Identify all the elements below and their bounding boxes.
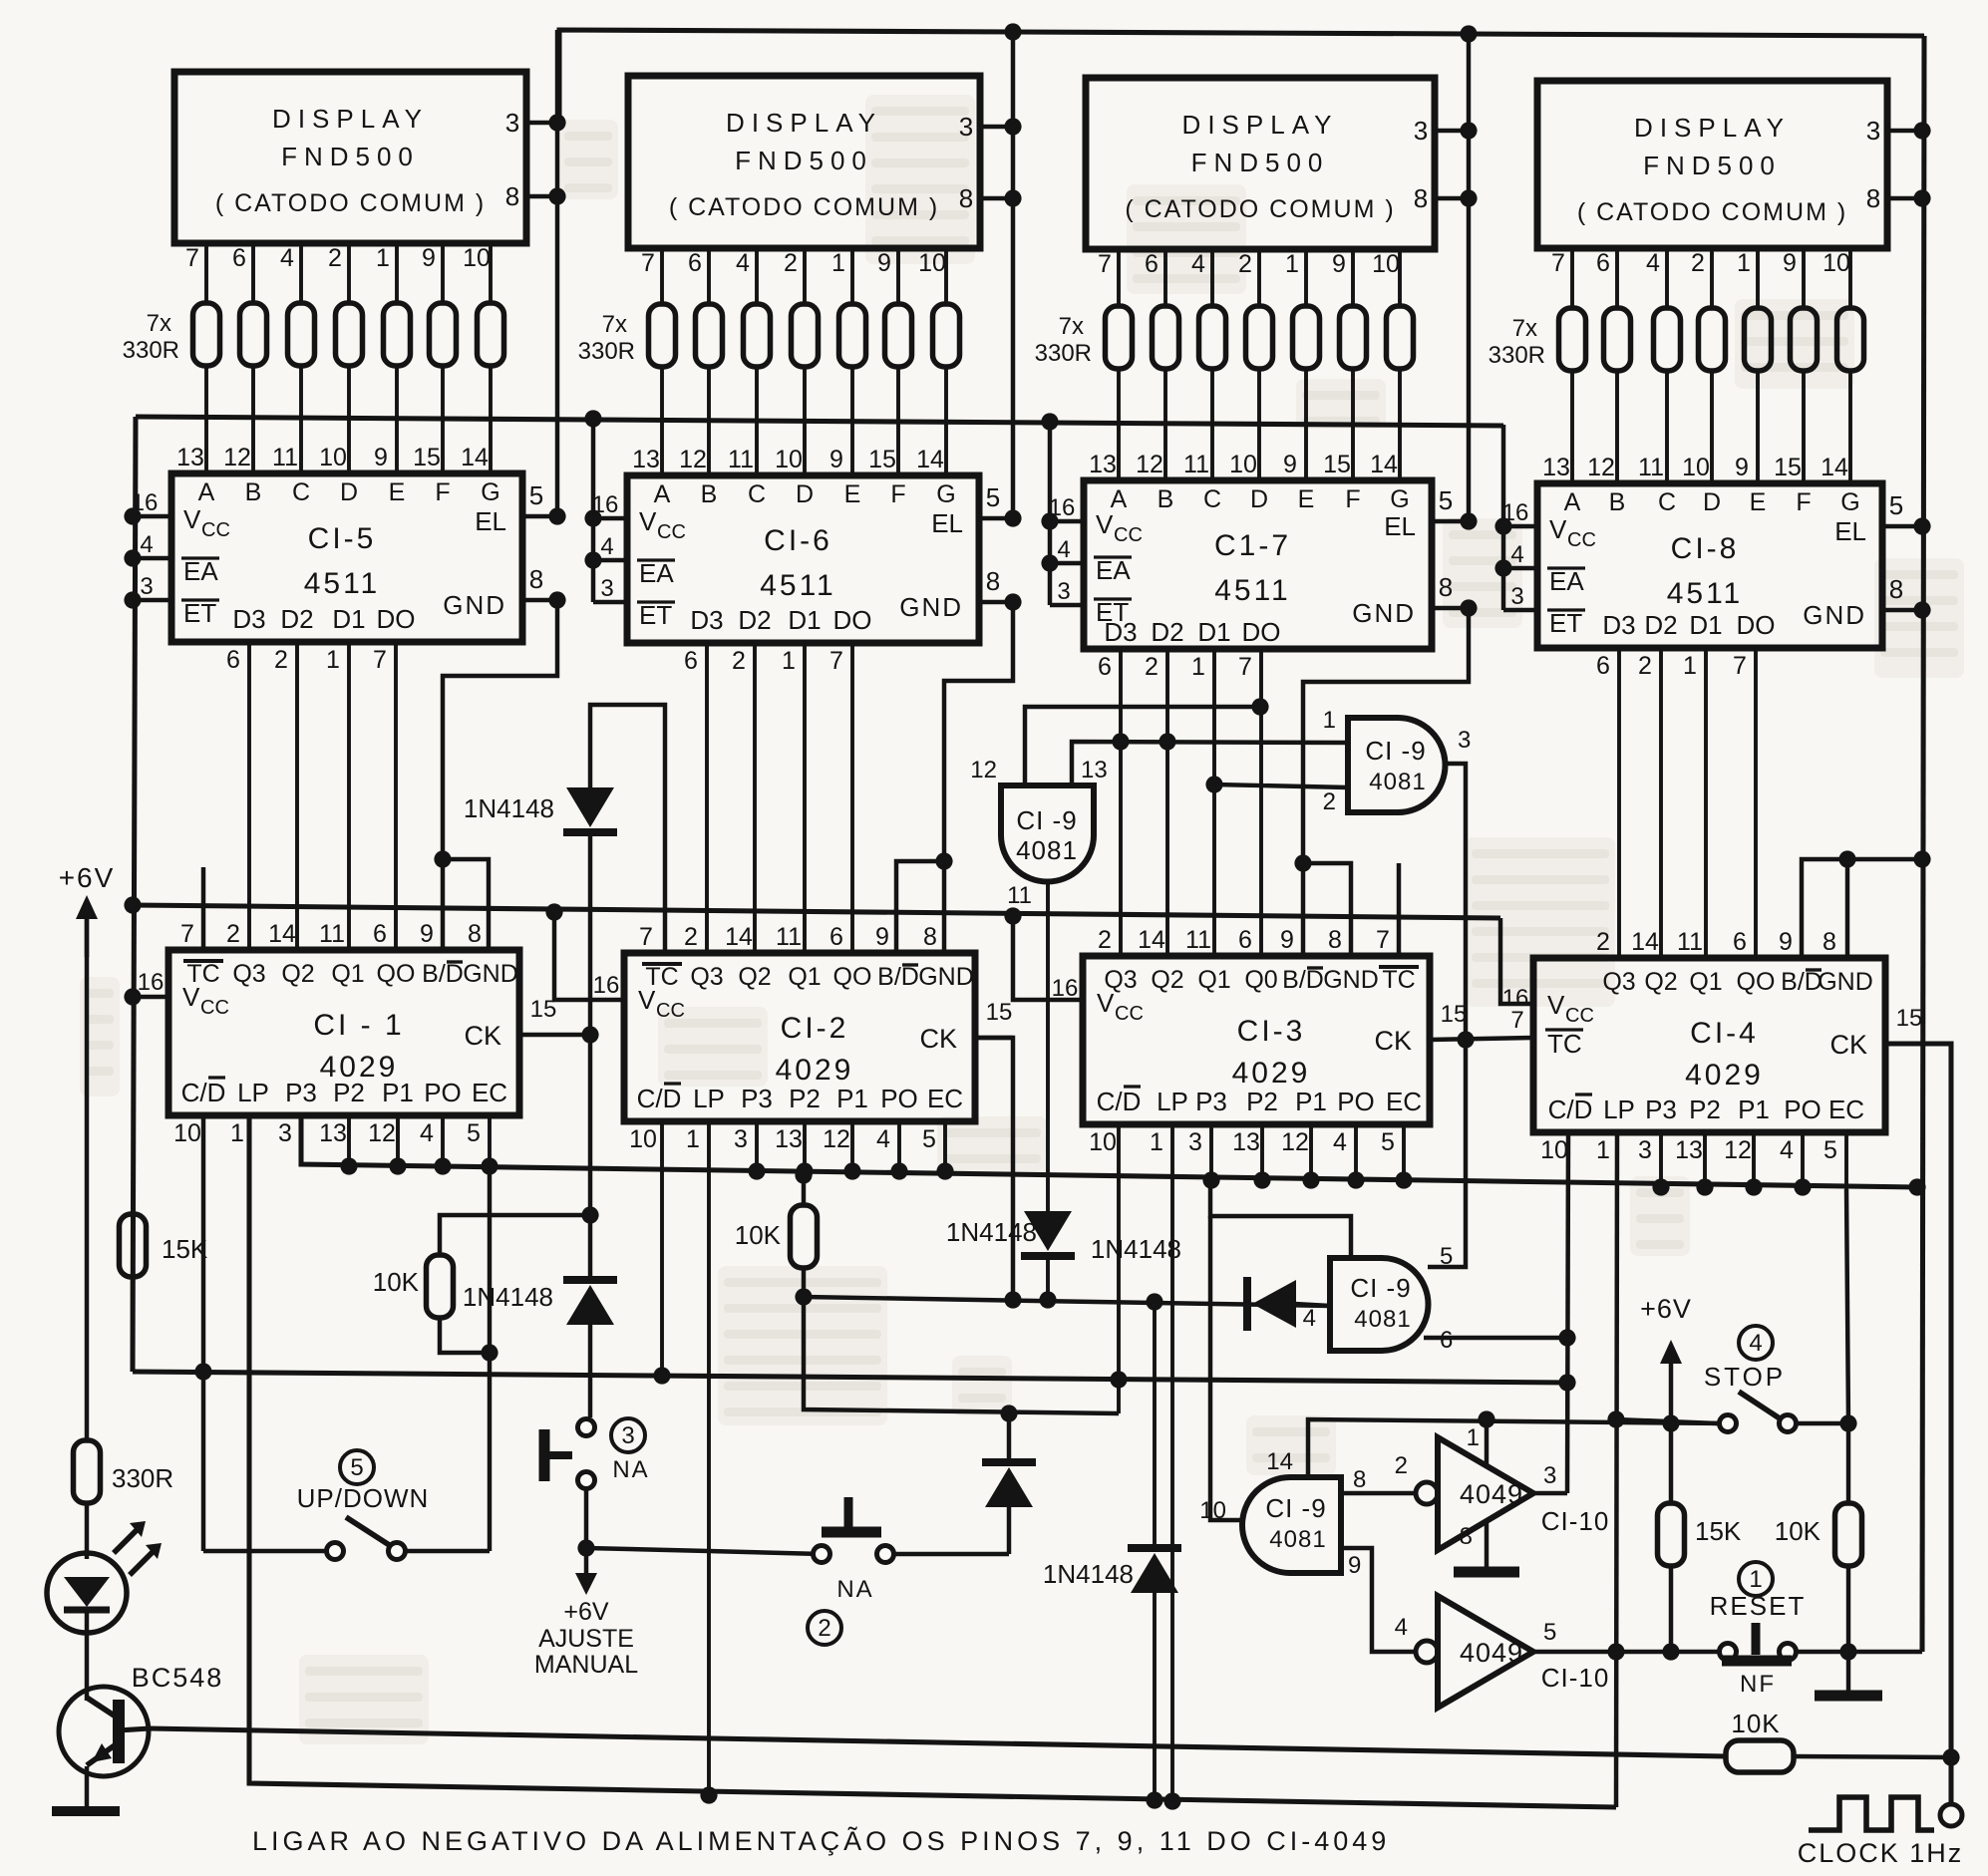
svg-text:CC: CC	[1567, 529, 1596, 551]
svg-text:5: 5	[350, 1454, 363, 1481]
svg-text:PO: PO	[424, 1078, 462, 1107]
svg-text:CC: CC	[656, 1000, 685, 1022]
display 2 pin 3 stub	[959, 112, 1022, 142]
IC 4511 C1-7 box	[1084, 480, 1432, 649]
wire C/D up-down bus	[133, 1372, 1568, 1383]
wire display 4 segment pin 4 / resistor / 4511 pin	[1646, 248, 1667, 483]
svg-text:GND: GND	[1323, 966, 1379, 994]
svg-text:13: 13	[1232, 1128, 1260, 1156]
svg-text:330R: 330R	[1489, 342, 1545, 369]
svg-text:4081: 4081	[1269, 1526, 1326, 1553]
resistor 15K left	[120, 1214, 208, 1372]
wire LP preset line	[249, 1118, 1616, 1807]
resistor 10K clock-base	[1726, 1709, 1960, 1772]
wire display 3 segment pin 10 / resistor / 4511 pin	[1372, 249, 1400, 480]
resistor 330R #1 column 2	[649, 304, 676, 367]
svg-text:5: 5	[1889, 490, 1903, 520]
svg-text:5: 5	[1381, 1128, 1395, 1156]
svg-text:7: 7	[1376, 926, 1390, 954]
svg-text:CK: CK	[464, 1021, 501, 1051]
wire inverter1 pin8 to ground	[1454, 1522, 1519, 1572]
svg-text:V: V	[1096, 509, 1114, 539]
svg-text:Q2: Q2	[1151, 966, 1183, 994]
wire display 1 segment pin 9 / resistor / 4511 pin	[422, 243, 443, 473]
svg-text:11: 11	[1185, 926, 1211, 954]
svg-text:6: 6	[373, 920, 387, 948]
svg-text:GND: GND	[918, 963, 974, 991]
svg-text:10: 10	[1229, 451, 1257, 478]
svg-text:STOP: STOP	[1704, 1362, 1786, 1392]
resistor 330R #5 column 2	[839, 304, 866, 367]
svg-text:B/D: B/D	[422, 960, 464, 988]
svg-text:CI -9: CI -9	[1265, 1493, 1326, 1523]
svg-text:C/D: C/D	[181, 1078, 226, 1107]
wire CI-4 pin 10 C/D line down	[1567, 1132, 1568, 1493]
label +6V ajuste manual	[534, 1548, 638, 1679]
svg-text:11: 11	[319, 920, 345, 948]
wire gate B pin2 from D1 col3	[1205, 776, 1348, 792]
svg-text:8: 8	[1414, 183, 1428, 213]
wires CI-8 D outputs to 4029	[1619, 648, 1756, 958]
svg-text:16: 16	[132, 489, 159, 516]
svg-text:330R: 330R	[112, 1463, 173, 1493]
wire display 2 segment pin 10 / resistor / 4511 pin	[918, 248, 946, 475]
svg-text:14: 14	[1821, 454, 1848, 481]
wire P2 10K chain (CI-2)	[735, 1166, 1119, 1413]
svg-text:FND500: FND500	[1191, 148, 1330, 177]
svg-text:2: 2	[818, 1615, 830, 1642]
svg-text:8: 8	[986, 566, 1000, 596]
switch STOP (4)	[1607, 1326, 1856, 1432]
svg-text:3: 3	[734, 1125, 748, 1153]
svg-text:1: 1	[831, 249, 845, 277]
display 4 pin 8 stub	[1866, 183, 1931, 213]
svg-text:6: 6	[1596, 652, 1610, 680]
resistor 330R #1 column 3	[1106, 306, 1133, 369]
svg-text:AJUSTE: AJUSTE	[538, 1625, 634, 1653]
svg-text:10: 10	[1089, 1128, 1117, 1156]
svg-text:V: V	[1549, 514, 1567, 544]
wire gate A pin13 from D3/D2 col3	[1072, 733, 1348, 785]
wire CI-4 EC pin 5 down to STOP	[1846, 1189, 1848, 1423]
svg-text:10: 10	[775, 446, 803, 473]
svg-text:CI-8: CI-8	[1671, 532, 1740, 565]
resistor 330R #4 column 3	[1246, 306, 1273, 369]
svg-text:CI-5: CI-5	[308, 522, 377, 555]
svg-text:2: 2	[1596, 928, 1610, 956]
svg-text:2: 2	[684, 923, 698, 951]
svg-text:V: V	[183, 504, 201, 534]
display DISP2 FND500	[628, 76, 980, 248]
svg-text:4: 4	[1057, 536, 1070, 563]
svg-text:15: 15	[413, 444, 441, 471]
C1-7 D3 D2 D1 D0 labels	[1098, 617, 1280, 681]
transistor Q1 BC548	[59, 1632, 223, 1806]
svg-text:16: 16	[593, 972, 620, 999]
svg-text:4: 4	[1395, 1614, 1408, 1641]
resistor 330R #1 column 4	[1559, 308, 1586, 371]
CI-5 pin 5 EL stub	[475, 480, 565, 536]
svg-text:DO: DO	[1242, 617, 1281, 647]
svg-text:12: 12	[679, 446, 707, 473]
svg-text:6: 6	[226, 646, 240, 674]
wire CI-1 pin 7 TC stub	[201, 867, 205, 950]
svg-text:LP: LP	[693, 1084, 725, 1113]
svg-text:P2: P2	[1246, 1087, 1278, 1116]
svg-text:8: 8	[1460, 1523, 1473, 1550]
svg-text:9: 9	[877, 249, 891, 277]
wire ground rail to CI-4 pins 9 8	[1802, 850, 1931, 958]
svg-text:6: 6	[1238, 926, 1252, 954]
svg-text:Q3: Q3	[690, 963, 723, 991]
wire CK CI-2 line	[804, 1038, 1330, 1309]
svg-text:C: C	[292, 478, 310, 506]
svg-text:14: 14	[1266, 1448, 1293, 1475]
svg-text:3: 3	[1510, 583, 1523, 610]
svg-text:10: 10	[173, 1119, 201, 1147]
resistor 330R #2 column 3	[1153, 306, 1179, 369]
label 7x330R column 3	[1035, 313, 1092, 367]
svg-text:ET: ET	[183, 598, 216, 628]
svg-text:D1: D1	[1689, 610, 1722, 640]
svg-text:( CATODO COMUM ): ( CATODO COMUM )	[1577, 198, 1847, 226]
wire display 3 cathode bus	[1467, 34, 1471, 521]
wire CI-4 pin 1 LP line down	[1616, 1132, 1617, 1807]
resistor 330R #7 column 2	[933, 304, 960, 367]
svg-text:LP: LP	[237, 1078, 269, 1107]
svg-text:V: V	[182, 982, 200, 1012]
svg-text:CI - 1: CI - 1	[313, 1009, 404, 1042]
svg-text:C: C	[748, 480, 766, 508]
svg-text:8: 8	[1328, 926, 1342, 954]
svg-text:10K: 10K	[735, 1220, 782, 1250]
svg-text:F: F	[1345, 485, 1360, 513]
svg-text:( CATODO COMUM ): ( CATODO COMUM )	[1125, 195, 1395, 223]
svg-text:4: 4	[280, 244, 294, 272]
IC 4029 CI-2 box	[624, 953, 975, 1121]
wire display 2 segment pin 2 / resistor / 4511 pin	[784, 248, 805, 475]
svg-text:EC: EC	[927, 1084, 963, 1113]
svg-text:6: 6	[688, 249, 702, 277]
svg-text:6: 6	[1733, 928, 1747, 956]
svg-text:4: 4	[1333, 1128, 1347, 1156]
svg-text:14: 14	[1370, 451, 1398, 478]
svg-text:4081: 4081	[1369, 769, 1426, 795]
svg-text:7x: 7x	[1512, 315, 1537, 342]
C1-7 pin 5 EL stub	[1384, 485, 1477, 541]
svg-text:2: 2	[1395, 1452, 1408, 1479]
wire display 2 cathode bus	[1011, 32, 1015, 518]
svg-text:11: 11	[1007, 882, 1032, 909]
svg-text:10: 10	[319, 444, 347, 471]
svg-text:MANUAL: MANUAL	[534, 1651, 638, 1679]
svg-text:4: 4	[1510, 541, 1523, 568]
svg-text:9: 9	[829, 446, 843, 473]
wire gate A pin12 from D0 col3	[1025, 698, 1269, 785]
svg-text:V: V	[1547, 990, 1565, 1020]
svg-text:FND500: FND500	[735, 146, 873, 175]
svg-text:CI -9: CI -9	[1365, 736, 1426, 766]
svg-text:3: 3	[278, 1119, 292, 1147]
svg-text:C: C	[1658, 488, 1676, 516]
CI-3 Vcc label	[1052, 975, 1144, 1025]
switch NA 3 (ajuste manual)	[544, 1418, 650, 1557]
svg-text:GND: GND	[899, 592, 963, 622]
svg-text:9: 9	[875, 923, 889, 951]
wire display 4 segment pin 2 / resistor / 4511 pin	[1691, 248, 1712, 483]
svg-text:DISPLAY: DISPLAY	[1634, 113, 1791, 143]
svg-text:5: 5	[1440, 1243, 1453, 1270]
resistor 330R #3 column 2	[744, 304, 771, 367]
resistor 330R #7 column 1	[478, 303, 504, 366]
svg-text:NA: NA	[612, 1456, 649, 1483]
switch UP/DOWN (5)	[194, 1115, 490, 1560]
svg-text:F: F	[435, 478, 450, 506]
display DISP1 FND500	[174, 72, 526, 243]
svg-text:10: 10	[1822, 249, 1850, 277]
wire CI-3 pin 7 TC stub	[1397, 863, 1401, 956]
svg-text:Q2: Q2	[1644, 968, 1677, 996]
right ground rail	[1922, 36, 1924, 1652]
resistor 330R #6 column 2	[885, 304, 912, 367]
wire display 3 segment pin 2 / resistor / 4511 pin	[1238, 249, 1259, 480]
CI-6 D3 D2 D1 D0 labels	[684, 605, 871, 675]
CI-6 top pin labels	[632, 446, 956, 508]
wire display 3 segment pin 9 / resistor / 4511 pin	[1332, 249, 1353, 480]
svg-text:1: 1	[1749, 1566, 1762, 1593]
svg-text:A: A	[1564, 488, 1581, 516]
svg-text:V: V	[1097, 988, 1115, 1018]
svg-text:( CATODO COMUM ): ( CATODO COMUM )	[215, 189, 486, 217]
wire CI-5 EL/GND to CI-1 pins 9 8	[434, 600, 557, 950]
svg-text:F: F	[1796, 488, 1811, 516]
svg-text:E: E	[844, 480, 861, 508]
svg-text:EL: EL	[1384, 511, 1416, 541]
svg-text:2: 2	[1098, 926, 1112, 954]
svg-text:2: 2	[784, 249, 798, 277]
diode D6 1N4148 (to gate C pin 4)	[1091, 1234, 1330, 1331]
resistor 330R #4 column 4	[1699, 308, 1726, 371]
svg-text:4: 4	[420, 1119, 434, 1147]
resistor 330R #6 column 3	[1340, 306, 1367, 369]
CI-2 top pin labels	[639, 923, 974, 991]
CI - 1 CK pin 15	[464, 996, 598, 1051]
wire display 4 segment pin 7 / resistor / 4511 pin	[1551, 248, 1572, 483]
display 1 pin 3 stub	[505, 108, 566, 138]
svg-text:1N4148: 1N4148	[1043, 1559, 1134, 1589]
wire inverter1 output to C/D node	[1533, 1374, 1576, 1493]
svg-text:Q2: Q2	[281, 960, 314, 988]
svg-text:UP/DOWN: UP/DOWN	[297, 1483, 430, 1513]
svg-text:3: 3	[140, 573, 153, 600]
svg-text:6: 6	[232, 244, 246, 272]
svg-text:7: 7	[1098, 250, 1112, 278]
resistor 330R #5 column 1	[384, 303, 411, 366]
svg-text:16: 16	[138, 969, 165, 996]
svg-text:1: 1	[1323, 707, 1336, 734]
svg-text:6: 6	[684, 647, 698, 675]
svg-text:12: 12	[1724, 1136, 1752, 1164]
wire Vcc jog to CI-4 pin 16	[1500, 918, 1533, 1004]
svg-text:3: 3	[1866, 116, 1880, 146]
svg-text:4029: 4029	[1685, 1059, 1764, 1092]
wire display 1 segment pin 10 / resistor / 4511 pin	[463, 243, 491, 473]
CI-5 top pin labels	[176, 444, 500, 506]
resistor 330R #3 column 3	[1199, 306, 1226, 369]
wire display 1 segment pin 4 / resistor / 4511 pin	[280, 243, 301, 473]
clock input terminal	[1798, 1797, 1964, 1868]
CI - 1 top pin labels	[180, 920, 518, 988]
wires CI-5 D outputs to 4029	[249, 642, 396, 950]
wire P-bus (P3 P2 P1 P0 ground bus)	[301, 1118, 1917, 1187]
svg-text:GND: GND	[443, 590, 506, 620]
svg-text:3: 3	[1188, 1128, 1202, 1156]
svg-text:2: 2	[1638, 652, 1652, 680]
wire CI-1 pin 16 stub	[124, 988, 168, 1005]
svg-text:4: 4	[140, 531, 153, 558]
svg-text:5: 5	[467, 1119, 481, 1147]
svg-text:DISPLAY: DISPLAY	[1182, 110, 1339, 140]
svg-text:8: 8	[468, 920, 482, 948]
svg-text:C/D: C/D	[1548, 1094, 1593, 1124]
svg-text:D3: D3	[1104, 617, 1137, 647]
svg-text:NF: NF	[1740, 1671, 1776, 1698]
svg-text:16: 16	[1502, 499, 1529, 526]
svg-text:P1: P1	[836, 1084, 868, 1113]
svg-text:4: 4	[736, 249, 750, 277]
resistor 330R #6 column 1	[430, 303, 457, 366]
svg-text:1N4148: 1N4148	[464, 793, 554, 823]
wire gate B output pin3 to CK CI-3 and gate C pin5	[1428, 764, 1466, 1267]
svg-text:3: 3	[600, 575, 613, 602]
svg-text:EA: EA	[1549, 566, 1584, 596]
svg-text:5: 5	[1439, 485, 1453, 515]
svg-text:B: B	[245, 478, 262, 506]
wire display 3 segment pin 6 / resistor / 4511 pin	[1145, 249, 1165, 480]
svg-text:7: 7	[1510, 1007, 1523, 1034]
ground symbol under BC548	[52, 1806, 120, 1816]
svg-text:9: 9	[1735, 454, 1749, 481]
CI-2 Vcc label	[593, 972, 685, 1022]
svg-text:5: 5	[1823, 1136, 1837, 1164]
svg-text:2: 2	[328, 244, 342, 272]
svg-text:10K: 10K	[1731, 1709, 1780, 1738]
svg-text:11: 11	[728, 446, 754, 473]
wire P bus jog to gate C top and gate D pin10	[1210, 1186, 1351, 1520]
svg-text:1N4148: 1N4148	[1091, 1234, 1181, 1264]
svg-text:10: 10	[1372, 250, 1400, 278]
svg-text:14: 14	[1631, 928, 1659, 956]
svg-text:ET: ET	[639, 600, 672, 630]
svg-text:14: 14	[461, 444, 489, 471]
svg-text:10: 10	[1199, 1497, 1226, 1524]
svg-text:BC548: BC548	[132, 1663, 224, 1693]
svg-text:6: 6	[829, 923, 843, 951]
display 3 pin 8 stub	[1414, 183, 1478, 213]
svg-text:+6V: +6V	[59, 862, 116, 893]
svg-text:9: 9	[374, 444, 388, 471]
svg-text:16: 16	[592, 491, 619, 518]
svg-text:1N4148: 1N4148	[463, 1282, 553, 1312]
resistor 330R left	[74, 1440, 174, 1559]
wires C1-7 D outputs to 4029	[1121, 649, 1261, 956]
svg-text:8: 8	[1353, 1466, 1366, 1493]
svg-text:CK: CK	[919, 1024, 957, 1054]
svg-text:ET: ET	[1549, 608, 1582, 638]
svg-text:GND: GND	[1803, 600, 1866, 630]
resistor 330R #2 column 1	[240, 303, 267, 366]
svg-text:7: 7	[180, 920, 194, 948]
svg-text:P3: P3	[1645, 1094, 1677, 1124]
wire display 2 segment pin 7 / resistor / 4511 pin	[641, 248, 662, 475]
wire display 2 segment pin 6 / resistor / 4511 pin	[688, 248, 709, 475]
svg-text:3: 3	[1057, 578, 1070, 605]
svg-text:FND500: FND500	[1643, 151, 1782, 180]
svg-text:G: G	[936, 480, 955, 508]
CI-5 D3 D2 D1 D0 labels	[226, 604, 415, 674]
wire display 3 segment pin 7 / resistor / 4511 pin	[1098, 249, 1119, 480]
svg-text:CI -9: CI -9	[1350, 1273, 1411, 1303]
svg-text:RESET: RESET	[1710, 1591, 1807, 1621]
svg-text:13: 13	[176, 444, 204, 471]
wire CI-6 EL/GND to CI-2 pins 9 8	[896, 602, 1013, 953]
CI-6 pin 5 EL stub	[931, 482, 1021, 538]
C1-7 left pins 16 4 3 (Vcc EA ET)	[1041, 413, 1142, 627]
wire display 4 segment pin 10 / resistor / 4511 pin	[1822, 248, 1850, 483]
svg-text:13: 13	[1089, 451, 1117, 478]
CI-3 bottom pin labels	[1089, 1087, 1422, 1156]
svg-text:DISPLAY: DISPLAY	[726, 108, 882, 138]
svg-text:CI-2: CI-2	[781, 1012, 849, 1045]
svg-text:13: 13	[319, 1119, 347, 1147]
svg-text:P2: P2	[789, 1084, 821, 1113]
svg-text:E: E	[1750, 488, 1767, 516]
wire 4029 Vcc distribution line	[124, 896, 1500, 918]
svg-text:C: C	[1203, 485, 1221, 513]
svg-text:12: 12	[1587, 454, 1615, 481]
svg-text:1: 1	[1285, 250, 1299, 278]
svg-text:C1-7: C1-7	[1214, 529, 1291, 562]
IC 4511 CI-6 box	[627, 475, 979, 643]
svg-text:12: 12	[1281, 1128, 1309, 1156]
svg-text:330R: 330R	[123, 337, 179, 364]
svg-text:GND: GND	[1352, 598, 1416, 628]
CI-8 pin 8 GND stub	[1803, 574, 1930, 630]
CI-3 CK pin 15	[1374, 1001, 1533, 1056]
svg-text:7: 7	[829, 647, 843, 675]
svg-text:PO: PO	[1784, 1094, 1822, 1124]
svg-text:B: B	[1158, 485, 1174, 513]
svg-text:Q3: Q3	[232, 960, 265, 988]
svg-text:7x: 7x	[602, 311, 627, 338]
resistor 330R #2 column 2	[696, 304, 723, 367]
wires CI-6 D outputs to 4029	[707, 643, 852, 953]
svg-text:+6V: +6V	[563, 1598, 609, 1626]
svg-text:D2: D2	[280, 604, 313, 634]
svg-text:4511: 4511	[1667, 577, 1744, 610]
CI-8 pin 5 EL stub	[1834, 490, 1930, 546]
svg-text:D: D	[1703, 488, 1721, 516]
svg-text:D: D	[1250, 485, 1268, 513]
switch NA 2	[808, 1497, 1009, 1645]
svg-text:B: B	[1609, 488, 1626, 516]
svg-text:( CATODO COMUM ): ( CATODO COMUM )	[669, 193, 939, 221]
wire display 2 segment pin 9 / resistor / 4511 pin	[877, 248, 898, 475]
svg-text:6: 6	[1098, 653, 1112, 681]
svg-text:CC: CC	[1114, 524, 1143, 546]
AND gate CI-9b 4081 (pins 1 2 3)	[1323, 707, 1472, 815]
svg-text:13: 13	[1675, 1136, 1703, 1164]
